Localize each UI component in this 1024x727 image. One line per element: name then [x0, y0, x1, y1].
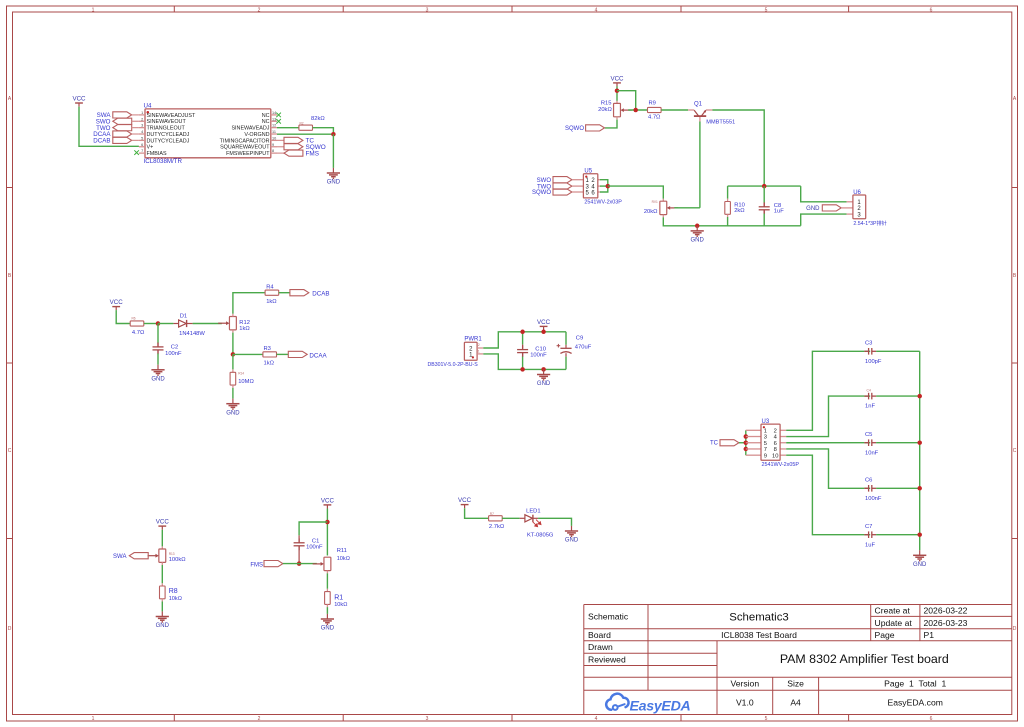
junction wiper node [633, 108, 638, 113]
net flag DCAB [113, 137, 132, 143]
svg-text:KT-0805G: KT-0805G [527, 533, 554, 539]
svg-text:7: 7 [764, 447, 767, 453]
svg-text:10nF: 10nF [865, 450, 879, 456]
ground [913, 550, 926, 561]
svg-text:SINEWAVEOUT: SINEWAVEOUT [147, 119, 187, 125]
wire wiper to R9 [628, 109, 647, 111]
svg-text:2541WV-2x05P: 2541WV-2x05P [762, 462, 800, 468]
wire U4 pin11 to node [277, 133, 333, 135]
U3 pin stubs [746, 430, 786, 455]
svg-text:SINEWAVEADJ: SINEWAVEADJ [231, 126, 269, 132]
svg-text:1kΩ: 1kΩ [264, 360, 275, 366]
svg-text:5: 5 [764, 441, 767, 447]
wire R15 bottom to SQWO flag [616, 117, 618, 120]
svg-text:R11: R11 [337, 548, 347, 554]
resistor R7 2.7k [489, 516, 503, 521]
svg-text:2026-03-23: 2026-03-23 [924, 618, 968, 628]
potentiometer RV1 20k [662, 199, 664, 202]
wire D1 to R12 wiper [193, 323, 222, 325]
svg-text:2.7kΩ: 2.7kΩ [489, 524, 505, 530]
net flag SQWO (R15 bottom) [586, 125, 605, 131]
wire VCC to R6 [116, 310, 130, 323]
wire RV1 bottom to gnd rail [662, 215, 664, 218]
svg-text:10kΩ: 10kΩ [334, 602, 347, 608]
svg-text:SWA: SWA [113, 554, 126, 560]
wire U4 pin12 to R2 [277, 127, 299, 129]
potentiometer R15 20k [616, 101, 618, 104]
svg-text:PAM 8302 Amplifier Test board: PAM 8302 Amplifier Test board [780, 652, 949, 666]
wire node rail to U6 [728, 185, 801, 187]
junction left bus pin5 [744, 440, 749, 445]
svg-text:VCC: VCC [110, 299, 124, 306]
wire RV1 wiper to Q1 emitter [674, 207, 700, 209]
svg-text:R15: R15 [601, 100, 612, 106]
svg-text:R6: R6 [132, 316, 136, 320]
capacitor C2 100nF [157, 324, 159, 344]
wire Q1 emitter down to RV1 wiper [699, 122, 701, 208]
svg-text:TIMINGCAPACITOR: TIMINGCAPACITOR [220, 138, 270, 144]
svg-text:R3: R3 [264, 346, 271, 352]
svg-text:TC: TC [710, 441, 719, 447]
svg-text:Board: Board [588, 630, 611, 640]
svg-text:SINEWAVEADJUST: SINEWAVEADJUST [147, 113, 197, 119]
svg-text:1uF: 1uF [774, 208, 784, 214]
svg-text:Update at: Update at [875, 618, 913, 628]
svg-text:U4: U4 [144, 102, 152, 109]
svg-text:1nF: 1nF [865, 404, 875, 410]
ground [156, 611, 169, 622]
svg-text:3: 3 [426, 716, 429, 722]
resistor R3 1k [263, 352, 277, 357]
svg-text:1: 1 [478, 349, 480, 353]
svg-text:V+: V+ [147, 145, 154, 151]
svg-text:100nF: 100nF [865, 496, 882, 502]
VCC [458, 497, 472, 508]
svg-text:Schematic3: Schematic3 [729, 611, 789, 623]
wire PWR1 pin2 to VCC rail [483, 332, 566, 348]
svg-text:2: 2 [258, 7, 261, 13]
junction at VCC branch [615, 88, 620, 93]
svg-text:V1.0: V1.0 [736, 697, 754, 707]
wire R2 to node [313, 128, 334, 135]
net flag TC (U4 pin10) [277, 139, 284, 141]
svg-text:PWR1: PWR1 [464, 337, 482, 343]
svg-text:D: D [1013, 626, 1017, 632]
svg-text:C5: C5 [865, 432, 872, 438]
junction C5 bus [917, 440, 922, 445]
svg-text:D: D [8, 626, 12, 632]
svg-text:C: C [8, 448, 12, 454]
VCC [156, 519, 170, 530]
svg-text:U5: U5 [584, 168, 592, 174]
svg-text:R13: R13 [169, 552, 175, 556]
svg-text:6: 6 [930, 716, 933, 722]
wire TC to U3 left bus [739, 442, 746, 444]
svg-text:U3: U3 [762, 419, 770, 425]
resistor R14 10M [232, 369, 234, 372]
capacitor C7 1uF [864, 534, 870, 536]
capacitor C3 100pF [864, 350, 870, 352]
junction C10 top [520, 330, 525, 335]
resistor R10 2k [727, 186, 729, 199]
svg-text:GND: GND [806, 206, 820, 212]
svg-text:Schematic: Schematic [588, 612, 629, 622]
svg-text:GND: GND [321, 626, 335, 632]
svg-text:Reviewed: Reviewed [588, 655, 626, 665]
resistor R2 82k [299, 125, 313, 130]
junction C8 node [762, 184, 767, 189]
svg-text:6: 6 [774, 441, 777, 447]
svg-text:2: 2 [774, 428, 777, 434]
net flag SWO [113, 118, 132, 124]
svg-text:DCAB: DCAB [93, 138, 110, 145]
svg-text:100nF: 100nF [165, 351, 182, 357]
svg-text:C10: C10 [535, 346, 546, 352]
wire U3 to C4 [786, 396, 864, 436]
header U6 2.54-1x3P [847, 201, 853, 203]
svg-text:GND: GND [226, 410, 240, 416]
ground [691, 226, 704, 237]
title block table [584, 605, 1012, 715]
potentiometer R13 100k [161, 546, 163, 549]
wire U3 to C7 [786, 455, 864, 535]
svg-text:R9: R9 [649, 101, 656, 107]
svg-text:MMBT5551: MMBT5551 [706, 119, 735, 125]
svg-text:FMS: FMS [250, 562, 263, 568]
resistor R4 1k [265, 290, 279, 295]
svg-text:C3: C3 [865, 341, 872, 347]
svg-text:9: 9 [764, 453, 767, 459]
junction R3 node [231, 352, 236, 357]
svg-text:C2: C2 [171, 344, 178, 350]
diode D1 1N4148W [158, 323, 173, 325]
resistor R1 10k [326, 589, 328, 592]
wire VCC down to R11 [326, 509, 328, 556]
net flag DCAA [113, 131, 132, 137]
svg-text:R12: R12 [239, 320, 250, 326]
svg-text:U6: U6 [853, 190, 861, 196]
header U5 2541WV-2x03P [583, 174, 597, 198]
resistor R9 4.7ohm [648, 107, 662, 112]
U4 pin numbers [141, 111, 276, 153]
wire VCC to pot R13 [161, 530, 163, 547]
wire VCC to R7 [465, 508, 489, 518]
svg-text:5: 5 [765, 716, 768, 722]
svg-text:C4: C4 [867, 388, 871, 392]
capacitor C1 100nF [298, 535, 300, 542]
svg-text:Page: Page [875, 630, 895, 640]
svg-text:4: 4 [595, 7, 598, 13]
ground [226, 399, 239, 410]
net flag FMS (U4 pin8) [277, 152, 284, 154]
wire branch to C1 [299, 522, 327, 535]
wire R12 top to R4 [232, 314, 234, 317]
header U3 2541WV-2x05P [761, 424, 780, 460]
capacitor C9 470uF polarized [565, 332, 567, 345]
svg-text:R8: R8 [169, 588, 178, 595]
svg-text:6: 6 [930, 7, 933, 13]
svg-text:NC: NC [262, 119, 270, 125]
svg-text:VCC: VCC [610, 76, 624, 83]
net flag SWA (R13 wiper) [129, 553, 148, 559]
svg-text:82kΩ: 82kΩ [311, 116, 325, 122]
ground [327, 168, 340, 179]
svg-text:3: 3 [426, 7, 429, 13]
wire FMS to R11 wiper [283, 563, 317, 565]
svg-text:SQWO: SQWO [532, 190, 551, 196]
svg-text:C6: C6 [865, 478, 872, 484]
svg-text:VCC: VCC [321, 498, 335, 505]
svg-text:20kΩ: 20kΩ [598, 107, 612, 113]
svg-text:Create at: Create at [875, 606, 911, 616]
svg-text:100nF: 100nF [306, 544, 323, 550]
net flag SWO (U5) [553, 177, 572, 183]
svg-text:2.54-1*3P排针: 2.54-1*3P排针 [853, 219, 886, 227]
svg-text:1: 1 [92, 716, 95, 722]
svg-text:SQWO: SQWO [565, 126, 584, 132]
svg-text:LED1: LED1 [526, 509, 541, 515]
svg-text:R14: R14 [238, 372, 244, 376]
wire R12 bottom to node [232, 330, 234, 333]
junction GND rail [541, 367, 546, 372]
junction gnd rail [695, 224, 700, 229]
svg-text:C: C [1013, 448, 1017, 454]
svg-text:A4: A4 [790, 697, 801, 707]
svg-text:EasyEDA.com: EasyEDA.com [887, 697, 942, 707]
title block text [588, 606, 968, 708]
VCC [321, 498, 335, 509]
svg-text:DUTYCYCLEADJ: DUTYCYCLEADJ [147, 138, 190, 144]
svg-text:Q1: Q1 [694, 102, 703, 108]
junction VCC rail [541, 330, 546, 335]
ground [151, 365, 164, 376]
svg-text:GND: GND [537, 381, 551, 387]
svg-text:P1: P1 [924, 630, 935, 640]
svg-text:100pF: 100pF [865, 359, 882, 365]
wire PWR1 pin1 to gnd rail [483, 354, 566, 370]
svg-text:R7: R7 [490, 512, 494, 516]
wire right gnd bus [919, 351, 921, 550]
wire R1 to ground [326, 607, 328, 614]
VCC [72, 96, 86, 107]
svg-text:GND: GND [327, 180, 341, 186]
svg-text:1: 1 [764, 428, 767, 434]
svg-text:FMBIAS: FMBIAS [147, 151, 167, 157]
capacitor C8 1uF [763, 186, 765, 203]
junction C7 bus [917, 532, 922, 537]
svg-text:4.7Ω: 4.7Ω [648, 115, 661, 121]
junction U5 node [606, 184, 611, 189]
wire U3 to C5 [786, 442, 864, 444]
svg-text:10MΩ: 10MΩ [238, 379, 254, 385]
svg-text:Drawn: Drawn [588, 642, 613, 652]
no-connect X on U4 pin 14 [276, 113, 281, 118]
capacitor C5 10nF [864, 442, 870, 444]
transistor Q1 MMBT5551 [688, 110, 712, 122]
svg-text:100nF: 100nF [530, 353, 547, 359]
ground [565, 526, 578, 537]
no-connect X on U4 pin 7 FMBIAS [134, 150, 139, 155]
junction node [331, 132, 336, 137]
svg-text:RV1: RV1 [652, 200, 658, 204]
svg-text:DUTYCYCLEADJ: DUTYCYCLEADJ [147, 132, 190, 138]
ground [537, 369, 550, 380]
junction left bus pin7 [744, 447, 749, 452]
svg-text:GND: GND [151, 376, 165, 382]
svg-text:GND: GND [565, 538, 579, 544]
svg-text:2: 2 [478, 343, 480, 347]
svg-text:GND: GND [156, 623, 170, 629]
svg-text:470uF: 470uF [575, 344, 592, 350]
svg-text:C7: C7 [865, 524, 872, 530]
svg-text:TRIANGLEOUT: TRIANGLEOUT [147, 126, 186, 132]
svg-text:1kΩ: 1kΩ [239, 326, 250, 332]
net flag SQWO (U5) [553, 189, 572, 195]
svg-text:4: 4 [595, 716, 598, 722]
junction FMS node [297, 561, 302, 566]
svg-text:3: 3 [764, 435, 767, 441]
capacitor C10 100nF [522, 332, 524, 345]
wire R8 to ground [161, 602, 163, 612]
wire U3 left bus [745, 430, 747, 455]
svg-text:R1: R1 [334, 594, 343, 601]
U4 pin names [147, 113, 271, 157]
svg-text:GND: GND [913, 562, 927, 568]
svg-text:1: 1 [92, 7, 95, 13]
U5 left pin stubs [572, 180, 601, 192]
potentiometer R11 10k [324, 557, 331, 570]
VCC [610, 76, 624, 87]
net flag TWO (U5) [553, 183, 572, 189]
wire U5 right pins common [600, 180, 608, 192]
IC U4 ICL8038M/TR body [145, 109, 271, 158]
svg-text:Size: Size [787, 679, 804, 689]
net flag DCAA (R3) [288, 351, 307, 357]
LED LED1 KT-0805G [520, 517, 525, 519]
wire LED1 to ground [538, 518, 571, 526]
wire U3 to C6 [786, 449, 864, 488]
wire node to R3 [233, 353, 263, 355]
wire U5 to RV1 top [608, 186, 664, 199]
wire R7 to LED1 [502, 517, 520, 519]
wire R4 to DCAB flag [279, 292, 290, 294]
wire node down to R14 [232, 354, 234, 369]
capacitor C4 1nF [864, 395, 870, 397]
wire to U6 pin1 [801, 186, 847, 202]
junction C10 bottom [520, 367, 525, 372]
svg-text:100kΩ: 100kΩ [169, 557, 187, 563]
ground [321, 614, 334, 625]
svg-text:R4: R4 [266, 284, 274, 290]
svg-text:NC: NC [262, 113, 270, 119]
wire R9 to Q1 base [661, 109, 688, 111]
net flag SWA [113, 112, 132, 118]
wire R3 to DCAA flag [277, 353, 289, 355]
junction C2 node [156, 321, 161, 326]
wire node down to ground [332, 134, 334, 168]
svg-text:V-ORGND: V-ORGND [244, 132, 269, 138]
potentiometer R12 1k [229, 317, 236, 330]
connector PWR1 DB301V [464, 342, 477, 360]
svg-text:DB301V-5.0-2P-BU-S: DB301V-5.0-2P-BU-S [428, 362, 479, 368]
svg-text:Version: Version [730, 679, 759, 689]
svg-text:FMSWEEPINPUT: FMSWEEPINPUT [226, 151, 270, 157]
svg-text:GND: GND [691, 238, 705, 244]
wire U3 to C3 [786, 351, 864, 430]
wire Q1 collector to C8 node [712, 110, 764, 186]
wire VCC to R15 [616, 86, 618, 101]
capacitor C6 100nF [864, 487, 870, 489]
wire branch over to wiper [617, 91, 636, 110]
svg-text:SQUAREWAVEOUT: SQUAREWAVEOUT [220, 145, 270, 151]
svg-text:5: 5 [765, 7, 768, 13]
wire to U6 pin3 [801, 214, 847, 226]
svg-text:C9: C9 [576, 335, 583, 341]
svg-text:20kΩ: 20kΩ [644, 209, 658, 215]
svg-text:FMS: FMS [306, 150, 320, 157]
svg-text:VCC: VCC [458, 497, 472, 504]
wire R14 to ground [232, 388, 234, 399]
wire VCC to U4 pin 6 [79, 107, 139, 147]
net flag TWO [113, 125, 132, 131]
VCC [537, 319, 551, 330]
svg-text:4.7Ω: 4.7Ω [132, 330, 145, 336]
resistor R6 4.7ohm [130, 321, 144, 326]
svg-text:ICL8038 Test Board: ICL8038 Test Board [721, 630, 797, 640]
svg-text:2541WV-2x03P: 2541WV-2x03P [584, 200, 622, 206]
svg-text:1N4148W: 1N4148W [179, 331, 205, 337]
junction left bus pin3 [744, 434, 749, 439]
svg-text:2026-03-22: 2026-03-22 [924, 606, 968, 616]
svg-text:DCAA: DCAA [309, 353, 327, 360]
PWR1 pin stubs [477, 348, 483, 354]
svg-text:10kΩ: 10kΩ [337, 556, 350, 562]
no-connect X on U4 pin 13 [276, 119, 281, 124]
net flag DCAB (R4) [290, 290, 309, 296]
svg-text:2: 2 [258, 716, 261, 722]
svg-text:VCC: VCC [156, 519, 170, 526]
wire R13 bottom to R8 [161, 562, 163, 565]
svg-text:VCC: VCC [537, 319, 551, 326]
svg-text:SWO: SWO [537, 178, 552, 184]
svg-text:Page 1 Total 1: Page 1 Total 1 [884, 679, 946, 689]
svg-text:1kΩ: 1kΩ [266, 299, 277, 305]
svg-text:1uF: 1uF [865, 542, 875, 548]
svg-text:DCAB: DCAB [312, 291, 329, 298]
U4 left pin stubs [139, 115, 277, 153]
svg-text:10kΩ: 10kΩ [169, 596, 182, 602]
svg-text:8: 8 [774, 447, 777, 453]
svg-text:ICL8038M/TR: ICL8038M/TR [144, 158, 183, 165]
junction C4 bus [917, 394, 922, 399]
wire R6 to node [144, 323, 158, 325]
svg-text:EasyEDA: EasyEDA [630, 698, 691, 714]
svg-text:10: 10 [772, 453, 778, 459]
svg-text:2kΩ: 2kΩ [734, 208, 745, 214]
VCC [110, 299, 124, 310]
svg-text:R2: R2 [300, 121, 304, 125]
junction C6 bus [917, 486, 922, 491]
junction C1 branch [325, 520, 330, 525]
resistor R8 10k [161, 583, 163, 586]
svg-text:VCC: VCC [72, 96, 86, 103]
net flag SQWO (U4 pin9) [277, 146, 284, 148]
svg-text:D1: D1 [180, 314, 187, 320]
wire R11 bottom to R1 [326, 571, 328, 574]
EasyEDA logo [606, 694, 690, 715]
